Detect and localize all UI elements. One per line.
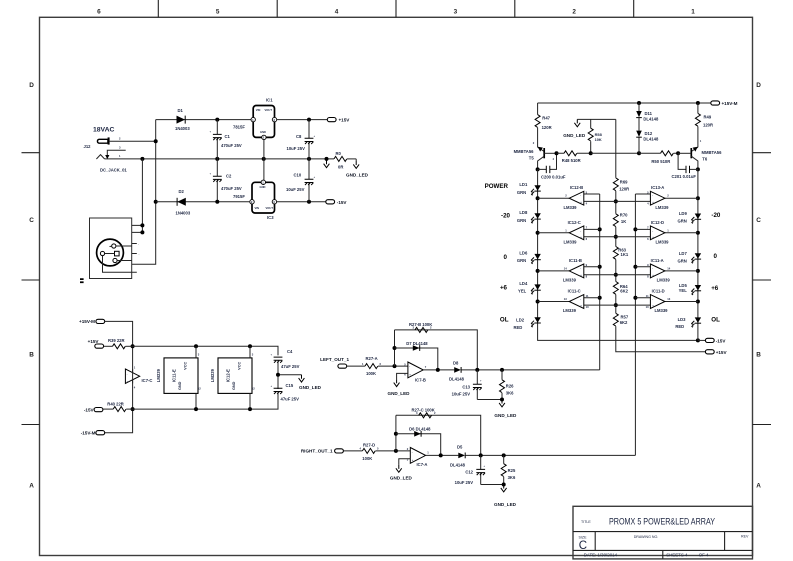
- svg-text:5: 5: [377, 447, 379, 451]
- svg-text:LM339: LM339: [210, 368, 215, 382]
- svg-text:1: 1: [667, 228, 669, 232]
- svg-text:4: 4: [134, 386, 136, 390]
- svg-text:GND_LED: GND_LED: [494, 502, 517, 507]
- svg-text:-: -: [138, 243, 139, 246]
- svg-text:2: 2: [667, 194, 669, 198]
- svg-text:T6: T6: [702, 157, 708, 162]
- svg-text:C10: C10: [294, 173, 302, 178]
- svg-text:0: 0: [504, 254, 508, 261]
- svg-text:-: -: [412, 451, 413, 454]
- svg-text:IC11-A: IC11-A: [651, 258, 664, 263]
- svg-text:T5: T5: [529, 156, 535, 161]
- svg-text:2: 2: [565, 194, 567, 198]
- svg-text:14: 14: [667, 266, 670, 270]
- capacitor C10 10uF 25V: [308, 159, 310, 202]
- wire bottom rectified rail: [156, 201, 250, 203]
- diode D2 1N4003: [177, 198, 186, 206]
- svg-text:GND: GND: [260, 185, 266, 189]
- ground GND_LED at IC7-B: [394, 379, 400, 386]
- wire -15 rail: [133, 392, 278, 410]
- svg-text:R69: R69: [620, 180, 628, 185]
- wire reference top GND line: [577, 118, 616, 120]
- svg-text:1: 1: [565, 228, 567, 232]
- svg-text:LD3: LD3: [678, 317, 687, 322]
- svg-text:VCC: VCC: [237, 362, 241, 370]
- svg-text:A: A: [756, 483, 761, 490]
- svg-text:GND: GND: [232, 381, 236, 390]
- svg-text:1: 1: [691, 9, 695, 16]
- transistor T5 MMBTA56: [538, 147, 557, 170]
- LED LD5 YEL: [691, 285, 701, 295]
- wire -15 output rail: [277, 201, 326, 203]
- svg-text:2: 2: [572, 9, 576, 16]
- resistor R40 22R: [113, 407, 126, 412]
- svg-text:+: +: [314, 135, 316, 138]
- svg-text:IC7-C: IC7-C: [142, 378, 153, 383]
- svg-text:13: 13: [667, 297, 670, 301]
- ground GND_LED at R0: [355, 159, 357, 161]
- svg-text:LEFT_OUT_1: LEFT_OUT_1: [320, 357, 349, 362]
- svg-text:GRN: GRN: [517, 190, 526, 195]
- svg-text:LM339: LM339: [563, 278, 577, 283]
- svg-text:RIGHT_OUT_1: RIGHT_OUT_1: [301, 448, 333, 453]
- svg-text:IC13-A: IC13-A: [651, 185, 664, 190]
- svg-text:IC1: IC1: [266, 98, 273, 103]
- svg-text:GRN: GRN: [517, 218, 526, 223]
- resistor R70 1K: [613, 214, 618, 227]
- diode D12 DL4148: [636, 131, 642, 138]
- svg-text:IC12-C: IC12-C: [568, 220, 581, 225]
- svg-text:VOUT: VOUT: [266, 206, 274, 210]
- LED LD4 YEL: [531, 284, 541, 294]
- svg-text:+: +: [480, 380, 482, 383]
- wire +15 rail to caps: [133, 346, 278, 355]
- wire D7 feedback branch: [395, 348, 438, 370]
- capacitor C200 0.01uF: [538, 153, 557, 169]
- svg-text:-: -: [127, 373, 128, 376]
- ground GND_LED at R25: [501, 485, 507, 492]
- svg-text:3: 3: [407, 458, 409, 462]
- svg-text:VIN: VIN: [255, 206, 260, 210]
- wire mid (ground) rail: [105, 158, 335, 160]
- svg-text:0R: 0R: [338, 164, 343, 169]
- svg-text:10K: 10K: [595, 137, 602, 142]
- regulator IC3 7915: [250, 180, 277, 213]
- svg-text:IC12-D: IC12-D: [651, 220, 664, 225]
- svg-text:LM339: LM339: [655, 239, 669, 244]
- svg-text:DL4148: DL4148: [643, 117, 659, 122]
- LED LD7 GRN: [691, 253, 701, 263]
- wire J12 pin2 to AC vertical: [110, 140, 156, 142]
- svg-text:+: +: [314, 176, 316, 179]
- diode D6 DL4148: [414, 431, 421, 437]
- svg-text:13: 13: [564, 297, 567, 301]
- svg-text:+15V: +15V: [339, 118, 351, 123]
- comparator IC11-D LM339: [635, 289, 698, 314]
- resistor R27-A 100K: [365, 364, 378, 369]
- svg-text:D: D: [29, 82, 34, 89]
- resistor R58 10K: [590, 119, 592, 153]
- svg-text:-: -: [580, 267, 581, 270]
- svg-text:47uF 25V: 47uF 25V: [281, 396, 300, 401]
- resistor R63 1K1: [613, 247, 618, 260]
- wire -15V to R40: [103, 408, 113, 410]
- svg-text:MMBTA56: MMBTA56: [702, 150, 723, 155]
- svg-text:12: 12: [252, 387, 255, 391]
- port gnd stub: [324, 160, 330, 167]
- svg-text:4: 4: [360, 447, 362, 451]
- svg-text:GRN: GRN: [517, 258, 526, 263]
- svg-text:VOUT: VOUT: [265, 108, 273, 112]
- svg-text:A: A: [29, 483, 34, 490]
- svg-text:C201 0.01uF: C201 0.01uF: [672, 174, 697, 179]
- svg-text:R26: R26: [506, 384, 514, 389]
- svg-text:4: 4: [553, 157, 555, 161]
- svg-text:D2: D2: [179, 189, 185, 194]
- svg-text:6: 6: [97, 9, 101, 16]
- svg-text:LM339: LM339: [657, 278, 671, 283]
- title block: [573, 506, 753, 559]
- svg-text:J12: J12: [84, 144, 92, 149]
- svg-text:-: -: [580, 230, 581, 233]
- svg-text:R27-C 100K: R27-C 100K: [412, 407, 435, 412]
- svg-text:LM339: LM339: [563, 205, 577, 210]
- svg-text:R40 22R: R40 22R: [107, 401, 124, 406]
- svg-text:-15V: -15V: [716, 338, 727, 343]
- svg-text:C2: C2: [226, 174, 232, 179]
- node junctions mid rail: [140, 157, 144, 161]
- svg-text:C12: C12: [465, 469, 473, 474]
- svg-text:LM339: LM339: [563, 239, 577, 244]
- wire op-amp output: [426, 454, 459, 456]
- svg-text:RED: RED: [675, 324, 684, 329]
- LED LD6 GRN: [531, 254, 541, 264]
- svg-text:1: 1: [134, 365, 136, 369]
- comparator IC12-B LM339: [538, 185, 651, 210]
- svg-text:GND: GND: [260, 130, 266, 134]
- wire + input to ground: [397, 373, 408, 379]
- svg-text:3: 3: [198, 353, 200, 357]
- resistor R69 120R: [613, 178, 618, 191]
- svg-text:3: 3: [454, 9, 458, 16]
- svg-text:DL4148: DL4148: [449, 376, 465, 381]
- wire +15 output rail: [277, 119, 328, 121]
- LED LD8 GRN: [531, 213, 541, 223]
- svg-text:R50 510R: R50 510R: [651, 159, 670, 164]
- port -15V: [94, 408, 103, 412]
- svg-text:GND_LED: GND_LED: [563, 133, 586, 138]
- svg-text:LD4: LD4: [519, 281, 528, 286]
- svg-text:-: -: [652, 298, 653, 301]
- svg-text:3K6: 3K6: [506, 391, 514, 396]
- svg-text:LD9: LD9: [679, 211, 688, 216]
- svg-text:RED: RED: [513, 325, 522, 330]
- svg-text:-: -: [652, 267, 653, 270]
- svg-text:C: C: [756, 217, 761, 224]
- svg-text:6K2: 6K2: [620, 289, 628, 294]
- svg-text:SHEETS 4: SHEETS 4: [666, 552, 688, 557]
- svg-text:2: 2: [119, 137, 121, 141]
- diode D7 DL4148: [413, 345, 420, 351]
- wire feedback vertical: [394, 330, 396, 366]
- svg-text:2: 2: [434, 411, 436, 415]
- svg-text:5: 5: [216, 9, 220, 16]
- svg-text:1: 1: [362, 362, 364, 366]
- svg-text:GND_LED: GND_LED: [494, 413, 517, 418]
- svg-text:100K: 100K: [366, 371, 376, 376]
- svg-text:4: 4: [335, 9, 339, 16]
- svg-text:R39 22R: R39 22R: [108, 338, 125, 343]
- svg-text:1: 1: [700, 139, 702, 143]
- svg-text:120R: 120R: [542, 125, 552, 130]
- wire +15V to R39: [104, 345, 113, 347]
- capacitor C15 47uF 25V: [274, 388, 283, 394]
- svg-text:SIZE: SIZE: [579, 536, 588, 540]
- resistor R0 0R: [334, 156, 347, 161]
- svg-text:C: C: [579, 540, 587, 552]
- resistor R27-B 100K: [415, 327, 428, 332]
- svg-text:GND: GND: [178, 381, 182, 390]
- capacitor C201 0.01uF: [678, 153, 698, 169]
- svg-text:D12: D12: [645, 131, 653, 136]
- port +15V-M: [96, 319, 105, 323]
- svg-text:+: +: [271, 385, 273, 388]
- svg-text:-: -: [652, 195, 653, 198]
- svg-text:IC3: IC3: [267, 215, 274, 220]
- svg-text:GND_LED: GND_LED: [346, 173, 369, 178]
- svg-text:1N4003: 1N4003: [175, 126, 190, 131]
- svg-text:120R: 120R: [703, 122, 713, 127]
- svg-text:12: 12: [198, 387, 201, 391]
- svg-text:MMBTA56: MMBTA56: [514, 149, 535, 154]
- svg-text:D6 DL4148: D6 DL4148: [409, 427, 431, 432]
- svg-text:C13: C13: [462, 384, 470, 389]
- border row ticks left: [22, 153, 40, 425]
- svg-text:8: 8: [586, 275, 588, 279]
- svg-text:VIN: VIN: [256, 108, 261, 112]
- svg-text:DATE: 1/30/2014: DATE: 1/30/2014: [584, 552, 618, 557]
- svg-text:IC11-D: IC11-D: [652, 289, 665, 294]
- border row ticks right: [753, 153, 772, 425]
- wire cap midpoint node: [278, 360, 302, 389]
- svg-text:GRN: GRN: [677, 219, 686, 224]
- svg-text:LD8: LD8: [519, 210, 528, 215]
- svg-text:-: -: [652, 230, 653, 233]
- connector J12 barrel jack pin symbol: [97, 137, 108, 144]
- svg-text:1: 1: [427, 450, 429, 454]
- svg-text:D: D: [756, 82, 761, 89]
- svg-text:D1: D1: [178, 108, 184, 113]
- svg-text:47uF 25V: 47uF 25V: [281, 364, 300, 369]
- svg-text:DL4148: DL4148: [450, 463, 466, 468]
- wire left LED chain: [538, 169, 698, 340]
- svg-text:-: -: [409, 366, 410, 369]
- resistor R64 6K2: [613, 282, 618, 295]
- ground GND_LED at R26: [499, 400, 505, 407]
- svg-text:-15V: -15V: [337, 200, 348, 205]
- svg-text:7915F: 7915F: [233, 194, 245, 199]
- comparator IC12-C LM339: [538, 220, 651, 245]
- wire IC1 gnd stub to IC3: [263, 140, 265, 181]
- ground GND_LED at IC7-A: [396, 465, 402, 472]
- port +15V: [327, 118, 336, 122]
- svg-text:R57: R57: [621, 314, 629, 319]
- resistor R48 510R: [557, 152, 591, 154]
- transistor T6 MMBTA56: [678, 147, 698, 170]
- border column ticks top: [158, 0, 633, 17]
- svg-text:OF 4: OF 4: [699, 552, 709, 557]
- comparator IC13-A LM339: [635, 185, 698, 210]
- svg-text:D5: D5: [457, 444, 463, 449]
- op-amp IC7-B: [408, 362, 423, 378]
- svg-text:2: 2: [533, 141, 535, 145]
- svg-text:3: 3: [119, 146, 121, 150]
- capacitor C2 470uF 25V: [216, 159, 218, 202]
- svg-text:10: 10: [646, 305, 649, 309]
- svg-text:R0: R0: [336, 151, 342, 156]
- LED LD1 GRN: [531, 185, 541, 195]
- svg-text:C4: C4: [287, 349, 293, 354]
- chassis mark: [80, 278, 84, 283]
- svg-text:8: 8: [647, 275, 649, 279]
- wire left signal bus: [599, 194, 601, 370]
- resistor R50 510R: [639, 152, 678, 154]
- LED LD2 RED: [531, 317, 541, 327]
- svg-text:470uF 25V: 470uF 25V: [221, 143, 242, 148]
- svg-text:LD5: LD5: [679, 283, 688, 288]
- resistor R47 120R: [537, 103, 539, 147]
- wire AC feed vertical to D1/D2 and connector: [132, 120, 156, 265]
- wire right signal bus: [634, 194, 636, 455]
- svg-text:6: 6: [586, 237, 588, 241]
- svg-text:-15V-M: -15V-M: [81, 431, 96, 436]
- wire R27-B feedback branch: [395, 330, 478, 370]
- svg-text:D7 DL4148: D7 DL4148: [406, 341, 428, 346]
- svg-text:IC7-B: IC7-B: [415, 377, 426, 382]
- svg-text:+6: +6: [711, 285, 719, 292]
- svg-text:R48 510R: R48 510R: [562, 158, 581, 163]
- regulator IC1 7815: [251, 106, 277, 140]
- wire R27-C feedback branch: [396, 415, 481, 455]
- svg-text:IC11-B: IC11-B: [569, 258, 582, 263]
- svg-text:LM339: LM339: [156, 368, 161, 382]
- diode D1 1N4003: [177, 116, 186, 124]
- port +15V-M top: [711, 101, 720, 105]
- svg-text:10uF 25V: 10uF 25V: [286, 187, 305, 192]
- svg-text:10: 10: [586, 305, 589, 309]
- svg-text:R47: R47: [542, 115, 550, 120]
- svg-text:D8: D8: [453, 360, 459, 365]
- svg-text:1: 1: [119, 154, 121, 158]
- jack switch arrow: [105, 155, 109, 159]
- svg-text:GND_LED: GND_LED: [299, 385, 322, 390]
- wire op-amp output: [423, 369, 454, 371]
- svg-text:YEL: YEL: [518, 289, 527, 294]
- comparator IC11-A LM339: [635, 258, 698, 283]
- svg-text:OL: OL: [711, 317, 720, 324]
- svg-text:+15V: +15V: [88, 339, 100, 344]
- svg-text:-15V: -15V: [84, 407, 95, 412]
- svg-text:C200 0.01uF: C200 0.01uF: [541, 175, 566, 180]
- resistor R27-D 100K: [362, 448, 375, 453]
- svg-text:+15V-M: +15V-M: [79, 319, 95, 324]
- jack lever: [96, 155, 104, 159]
- svg-text:C: C: [29, 217, 34, 224]
- resistor R27-C 100K: [419, 413, 432, 418]
- wire right detector output bus: [465, 454, 635, 456]
- svg-text:1K1: 1K1: [621, 252, 629, 257]
- wire to R27-D: [343, 450, 362, 452]
- capacitor C1 470uF 25V: [216, 120, 218, 159]
- svg-text:-20: -20: [711, 212, 721, 219]
- svg-text:-: -: [139, 253, 140, 256]
- wire right LED chain: [697, 169, 699, 340]
- svg-text:POWER: POWER: [485, 183, 509, 190]
- resistor R49 120R: [697, 103, 699, 147]
- svg-text:1K: 1K: [621, 219, 626, 224]
- capacitor C12 10uF 25V: [481, 455, 504, 484]
- svg-text:6: 6: [647, 237, 649, 241]
- port -15V LED rail: [698, 339, 706, 341]
- svg-text:LM339: LM339: [563, 308, 577, 313]
- capacitor C8 10uF 25V: [308, 120, 310, 159]
- svg-text:GND_LED: GND_LED: [388, 391, 411, 396]
- svg-text:IC12-E: IC12-E: [225, 369, 230, 382]
- svg-text:10uF 25V: 10uF 25V: [287, 146, 306, 151]
- svg-text:DRAWING NO.: DRAWING NO.: [634, 535, 659, 539]
- port -15V: [326, 200, 335, 204]
- wire left detector output bus: [461, 369, 599, 371]
- op-amp IC7-A: [410, 448, 425, 464]
- wire +15V-M / -15V-M vertical trunk: [105, 321, 133, 432]
- svg-text:-: -: [580, 298, 581, 301]
- svg-text:100K: 100K: [362, 456, 372, 461]
- resistor R39 22R: [113, 344, 126, 349]
- resistor R25 3K6: [503, 455, 505, 484]
- svg-text:4: 4: [586, 201, 588, 205]
- LED LD9 GRN: [691, 214, 701, 224]
- svg-text:+: +: [483, 465, 485, 468]
- diode D5 DL4148: [458, 453, 465, 459]
- svg-text:6: 6: [380, 362, 382, 366]
- svg-text:3: 3: [252, 353, 254, 357]
- comparator IC11-B LM339: [538, 258, 651, 283]
- svg-text:0: 0: [714, 253, 718, 260]
- op-amp IC7-C buffer: [125, 369, 139, 383]
- LED LD3 RED: [691, 317, 701, 327]
- svg-text:LM339: LM339: [655, 205, 669, 210]
- svg-text:DL4148: DL4148: [643, 136, 659, 141]
- svg-text:14: 14: [564, 266, 567, 270]
- svg-text:IC7-A: IC7-A: [417, 462, 428, 467]
- svg-text:R49: R49: [704, 114, 712, 119]
- svg-text:REV: REV: [741, 535, 749, 539]
- svg-text:IC12-B: IC12-B: [570, 185, 583, 190]
- svg-text:10uF 25V: 10uF 25V: [455, 480, 474, 485]
- capacitor C4 47uF 25V: [274, 357, 283, 363]
- port -15V-M: [96, 431, 105, 435]
- svg-text:LD6: LD6: [519, 250, 528, 255]
- svg-text:PROMX 5 POWER&LED ARRAY: PROMX 5 POWER&LED ARRAY: [609, 517, 715, 527]
- svg-text:470uF 25V: 470uF 25V: [221, 186, 242, 191]
- svg-text:7815F: 7815F: [233, 125, 245, 130]
- svg-text:R27-A: R27-A: [366, 356, 378, 361]
- resistor R57 6K2: [613, 313, 618, 326]
- wire R27-A to op-amp input: [378, 365, 408, 367]
- svg-text:OL: OL: [500, 317, 509, 324]
- svg-text:LM339: LM339: [654, 308, 668, 313]
- resistor R26 3K6: [501, 370, 503, 400]
